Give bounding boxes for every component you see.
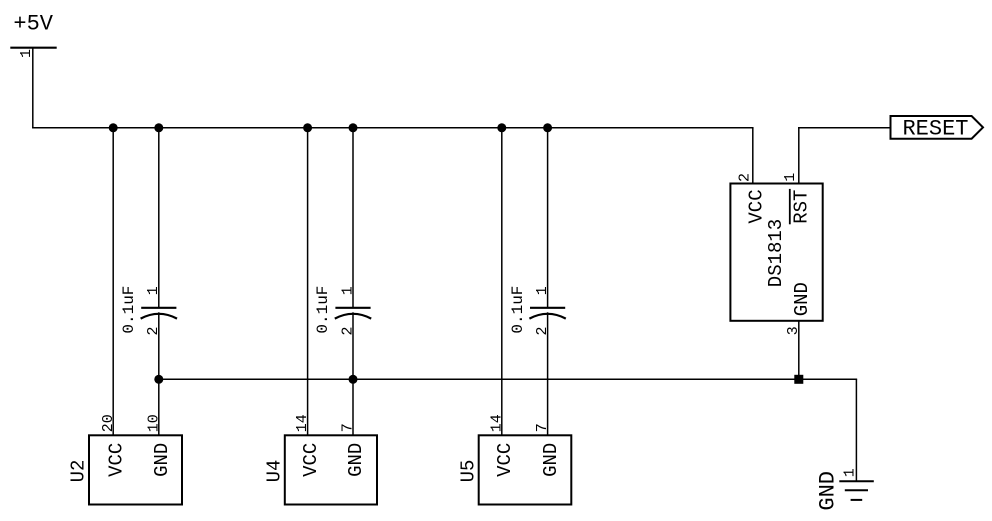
pin number 20 of U2 (100, 414, 117, 432)
svg-text:U5: U5 (457, 460, 479, 483)
wire: DS1813 RST pin riser (798, 127, 800, 183)
junction: top bus / U5 VCC (497, 123, 506, 132)
svg-text:1: 1 (782, 173, 799, 182)
svg-text:VCC: VCC (745, 189, 767, 223)
reference designator U2 (68, 460, 90, 483)
pin number 7 of U4 (340, 423, 357, 432)
pin 1 label of ground symbol (842, 468, 859, 477)
wire: RST to RESET flag (798, 127, 890, 129)
capacitor 0.1uF #3 (529, 308, 565, 319)
svg-text:2: 2 (339, 326, 356, 335)
pin 2 label cap #2 (339, 326, 356, 335)
power symbol +5V (10, 11, 56, 47)
pin name RST (with overline) of DS1813 (790, 189, 813, 224)
pin 1 label cap #1 (145, 286, 162, 295)
wire: cap 2 bottom (capacitor to GND pin) (352, 312, 354, 435)
svg-text:RESET: RESET (902, 117, 968, 142)
pin name VCC of U4 (300, 443, 322, 477)
svg-text:20: 20 (100, 414, 117, 432)
junction: top bus / U2 VCC (109, 123, 118, 132)
junction: gnd bus / C1 (154, 375, 163, 384)
value label 0.1uF #3 (509, 286, 527, 334)
svg-text:0.1uF: 0.1uF (509, 286, 527, 334)
pin number 1 of DS1813 (782, 173, 799, 182)
junction: gnd bus / DS1813 GND (square) (794, 375, 803, 384)
wire: gnd symbol drop (855, 379, 857, 481)
junction: top bus / C2 (349, 123, 358, 132)
wire: cap 3 top (bus to capacitor) (547, 128, 549, 308)
svg-text:7: 7 (534, 423, 551, 432)
capacitor 0.1uF #1 (141, 308, 177, 319)
pin 1 label cap #2 (339, 286, 356, 295)
svg-text:2: 2 (534, 326, 551, 335)
pin 1 label of +5V symbol (18, 49, 35, 58)
svg-text:U2: U2 (68, 460, 90, 483)
svg-text:0.1uF: 0.1uF (120, 286, 138, 334)
wire: cap 1 bottom (capacitor to GND pin) (158, 312, 160, 435)
wire: GND horizontal bus (158, 378, 857, 380)
net flag RESET (891, 116, 984, 142)
pin name VCC of U2 (105, 443, 127, 477)
svg-text:RST: RST (790, 190, 812, 224)
pin name GND of U5 (540, 443, 562, 477)
pin 2 label cap #3 (534, 326, 551, 335)
junction: top bus / U4 VCC (303, 123, 312, 132)
junction: top bus / C3 (543, 123, 552, 132)
pin 1 label cap #3 (534, 286, 551, 295)
pin name VCC of U5 (494, 443, 516, 477)
junction: gnd bus / C2 (349, 375, 358, 384)
svg-text:GND: GND (816, 471, 841, 511)
IC U4 body (285, 435, 377, 504)
wire: cap 1 top (bus to capacitor) (158, 128, 160, 308)
svg-text:2: 2 (145, 326, 162, 335)
wire: +5V vertical drop (32, 48, 34, 128)
pin number 7 of U5 (534, 423, 551, 432)
svg-text:1: 1 (339, 286, 356, 295)
svg-text:GND: GND (791, 282, 813, 316)
pin number 3 of DS1813 (785, 326, 802, 335)
IC U2 body (89, 435, 182, 504)
wire: cap 3 bottom (capacitor to GND pin) (547, 312, 549, 435)
wire: U2 VCC drop (112, 128, 114, 436)
net label GND (816, 471, 841, 511)
svg-text:14: 14 (294, 414, 311, 432)
svg-text:GND: GND (345, 443, 367, 477)
svg-text:VCC: VCC (300, 443, 322, 477)
svg-text:3: 3 (785, 326, 802, 335)
pin name GND of U4 (345, 443, 367, 477)
pin name GND of DS1813 (791, 282, 813, 316)
svg-text:GND: GND (151, 443, 173, 477)
value label 0.1uF #2 (314, 286, 332, 334)
junction: top bus / C1 (154, 123, 163, 132)
svg-text:0.1uF: 0.1uF (314, 286, 332, 334)
svg-text:+5V: +5V (13, 11, 53, 36)
pin number 14 of U5 (488, 414, 505, 432)
svg-text:7: 7 (340, 423, 357, 432)
wire: cap 2 top (bus to capacitor) (352, 128, 354, 308)
wire: U5 VCC drop (501, 128, 503, 436)
value label 0.1uF #1 (120, 286, 138, 334)
pin number 14 of U4 (294, 414, 311, 432)
ground symbol (839, 481, 874, 500)
svg-text:10: 10 (145, 414, 162, 432)
svg-text:VCC: VCC (105, 443, 127, 477)
wire: DS1813 VCC pin riser (752, 128, 754, 184)
wire: U4 VCC drop (307, 128, 309, 436)
svg-text:GND: GND (540, 443, 562, 477)
reference designator U5 (457, 460, 479, 483)
value DS1813 (765, 219, 787, 287)
reference designator U4 (263, 460, 285, 483)
wire: +5V horizontal bus (32, 127, 754, 129)
IC DS1813 body (730, 184, 822, 321)
pin number 10 of U2 (145, 414, 162, 432)
svg-text:1: 1 (145, 286, 162, 295)
svg-text:1: 1 (842, 468, 859, 477)
svg-text:U4: U4 (263, 460, 285, 483)
svg-text:2: 2 (736, 173, 753, 182)
svg-text:14: 14 (488, 414, 505, 432)
pin 2 label cap #1 (145, 326, 162, 335)
pin number 2 of DS1813 (736, 173, 753, 182)
IC U5 body (479, 435, 572, 504)
svg-text:1: 1 (534, 286, 551, 295)
pin name VCC of DS1813 (745, 189, 767, 223)
wire: DS1813 GND pin drop (798, 321, 800, 380)
svg-text:DS1813: DS1813 (765, 219, 787, 287)
pin name GND of U2 (151, 443, 173, 477)
svg-text:VCC: VCC (494, 443, 516, 477)
capacitor 0.1uF #2 (335, 308, 371, 319)
